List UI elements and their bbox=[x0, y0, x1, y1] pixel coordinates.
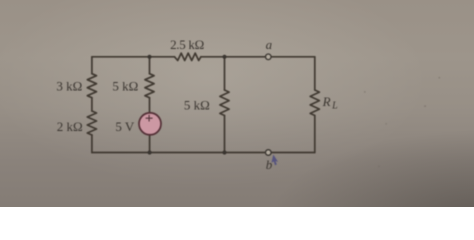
svg-text:5 V: 5 V bbox=[115, 119, 135, 134]
svg-text:RL: RL bbox=[322, 94, 339, 112]
svg-text:2.5 kΩ: 2.5 kΩ bbox=[170, 37, 204, 52]
svg-text:b: b bbox=[266, 157, 273, 172]
svg-text:3 kΩ: 3 kΩ bbox=[56, 78, 82, 93]
svg-text:5 kΩ: 5 kΩ bbox=[112, 78, 138, 93]
svg-text:5 kΩ: 5 kΩ bbox=[184, 98, 210, 113]
svg-text:2 kΩ: 2 kΩ bbox=[57, 119, 83, 134]
svg-text:a: a bbox=[266, 37, 273, 52]
